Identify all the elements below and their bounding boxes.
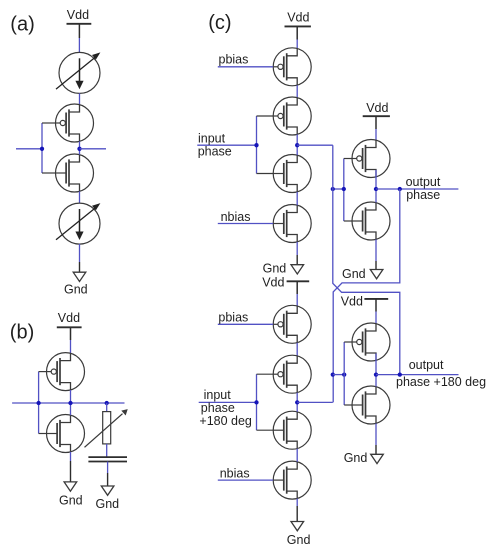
svg-text:Gnd: Gnd [263, 262, 287, 276]
wire Vdd to M3 [70, 340, 72, 353]
wire M16 to ground [375, 423, 377, 445]
input label top [198, 131, 226, 145]
wire input phase 180 line [199, 401, 257, 403]
junction tap left bottom [331, 372, 335, 376]
wire M8 to ground [296, 242, 298, 255]
Vdd label (a) [67, 8, 89, 22]
transistor M1 (PMOS) [56, 104, 94, 142]
Vdd label (c mid) [262, 276, 284, 290]
svg-text:phase: phase [201, 401, 235, 415]
ground symbol (a) [73, 272, 86, 281]
pbias label bottom [218, 310, 248, 324]
ground symbol (b) right [101, 486, 114, 495]
wire M7 to M8 [296, 192, 298, 205]
Gnd label (b) right [96, 497, 120, 511]
wire resistor to capacitor [106, 444, 108, 457]
svg-text:output: output [409, 358, 444, 372]
transistor M13 (PMOS out top) [352, 140, 390, 178]
ground symbol (b) left [64, 482, 77, 491]
wire I1 to M1 drain [79, 93, 81, 105]
wire Vdd to M5 stem [296, 26, 298, 39]
svg-text:+180 deg: +180 deg [199, 414, 252, 428]
ground symbol (c bottom-left) [291, 522, 304, 531]
junction input gate bottom [254, 400, 258, 404]
Vdd rail bar (c mid) [287, 280, 310, 282]
wire pbias bottom [218, 323, 273, 325]
wire gate bus top input [256, 116, 258, 174]
wire Vdd to M13 [375, 129, 377, 140]
Vdd rail bar (c top-left) [285, 25, 311, 27]
output label bottom [409, 358, 444, 372]
transistor M7 (NMOS input top) [273, 155, 311, 193]
svg-text:Vdd: Vdd [67, 8, 89, 22]
Gnd label (c bottom-left) [287, 533, 311, 547]
svg-text:Vdd: Vdd [58, 311, 80, 325]
Vdd rail bar (a) [67, 23, 92, 25]
wire M11 to M12 [296, 449, 298, 462]
wire M4 to ground (b) [70, 452, 72, 461]
svg-text:(c): (c) [208, 12, 231, 34]
wire ground stem (a) [79, 262, 81, 272]
wire gate bus out top [343, 159, 345, 222]
wire Vdd to I1 stem [78, 24, 80, 38]
wire gate stub M14 [344, 220, 353, 222]
svg-text:Gnd: Gnd [342, 267, 366, 281]
transistor M15 (PMOS out bottom) [352, 323, 390, 361]
wire gate bus bottom input [256, 374, 258, 430]
wire Vdd to M15 stem [375, 299, 377, 312]
transistor M4 (NMOS) [47, 415, 85, 453]
junction gate bus (b) [36, 401, 40, 405]
transistor M9 (PMOS pbias bottom) [273, 305, 311, 343]
wire Vdd to M3 stem [70, 327, 72, 340]
capacitor C1 [88, 457, 127, 461]
plus 180 deg label [199, 414, 252, 428]
svg-text:Vdd: Vdd [366, 101, 388, 115]
Vdd label (b) [58, 311, 80, 325]
resistor R1 (variable) [85, 409, 128, 447]
wire M9 to M10 [296, 343, 298, 356]
wire cross tap top [333, 188, 344, 190]
junction output cross top [398, 187, 402, 191]
wire gate stub M7 [257, 173, 274, 175]
svg-text:Gnd: Gnd [64, 283, 88, 297]
ground symbol (c top-left) [291, 265, 304, 274]
phase label bottom [201, 401, 235, 415]
wire M2 to I2 [79, 191, 81, 203]
wire ground stem (c bottom-right) [375, 445, 377, 454]
Gnd label (a) [64, 283, 88, 297]
Vdd rail bar (c top-right) [363, 115, 390, 117]
wire node B to cross rail [297, 401, 333, 403]
wire gate stub M16 [344, 404, 352, 406]
wire output phase line [376, 188, 458, 190]
section label (c) [208, 12, 231, 34]
wire mid rail (b) [70, 390, 72, 415]
junction node B [295, 400, 299, 404]
transistor M14 (NMOS out top) [352, 202, 390, 240]
wire Vdd to M13 stem [375, 116, 377, 129]
svg-text:phase: phase [406, 188, 440, 202]
junction node A [295, 143, 299, 147]
svg-text:(a): (a) [10, 13, 34, 35]
junction input gate (a) [40, 147, 44, 151]
svg-text:Gnd: Gnd [59, 494, 83, 508]
wire pbias top [218, 66, 273, 68]
wire Vdd to M15 [375, 312, 377, 324]
Gnd label (c bottom-right) [344, 451, 368, 465]
wire node A to cross rail [297, 144, 333, 146]
wire net B cross (output A to node B) [333, 189, 400, 402]
wire net A cross (node A to output B) [333, 145, 400, 374]
junction out node bottom [374, 372, 378, 376]
wire Vdd to M5 [296, 40, 298, 49]
transistor M3 (PMOS) [47, 353, 85, 391]
wire cross tap bottom [333, 374, 344, 376]
transistor M11 (NMOS input bottom) [273, 411, 311, 449]
transistor M2 (NMOS) [56, 154, 94, 192]
junction output cross bottom [398, 372, 402, 376]
svg-text:nbias: nbias [220, 467, 250, 481]
svg-text:Gnd: Gnd [96, 497, 120, 511]
ground symbol (c top-right) [370, 270, 383, 279]
wire gate stub M10 [257, 373, 274, 375]
phase label top [198, 144, 232, 158]
wire gate stub M15 [344, 341, 352, 343]
wire tap to resistor [106, 403, 108, 412]
wire gate bus out bottom [343, 342, 345, 405]
phase 180 label [396, 375, 486, 389]
svg-text:output: output [406, 175, 441, 189]
wire ground stem (b) left [70, 461, 72, 482]
Vdd label (c top-right) [366, 101, 388, 115]
wire ground stem (c top-left) [296, 255, 298, 265]
junction tap left top [331, 187, 335, 191]
wire gate stub M1 [42, 122, 56, 124]
input label bottom [204, 388, 232, 402]
svg-text:Vdd: Vdd [341, 295, 363, 309]
wire gate bus (b) [38, 372, 40, 434]
junction input gate top [254, 143, 258, 147]
Vdd label (c bottom-right) [341, 295, 363, 309]
nbias label bottom [220, 467, 250, 481]
wire M14 to ground [375, 239, 377, 261]
wire ground stem (b) right [107, 473, 109, 486]
transistor M8 (NMOS nbias top) [273, 205, 311, 243]
junction output node (b) [68, 401, 72, 405]
junction output node (a) [77, 147, 81, 151]
transistor M16 (NMOS out bottom) [352, 386, 390, 424]
wire gate stub M6 [257, 115, 274, 117]
svg-text:Vdd: Vdd [287, 11, 309, 25]
Vdd label (c top-left) [287, 11, 309, 25]
wire M12 to ground [296, 499, 298, 507]
wire inverter node bottom [296, 393, 298, 412]
wire gate stub M13 [344, 158, 353, 160]
wire gate bus (a) [41, 123, 43, 173]
wire nbias bottom [218, 479, 273, 481]
Vdd rail bar (b) [57, 326, 82, 328]
Gnd label (c top-right) [342, 267, 366, 281]
svg-text:Vdd: Vdd [262, 276, 284, 290]
wire ground stem (c bottom-left) [296, 506, 298, 521]
section label (a) [10, 13, 34, 35]
wire M5 to M6 [296, 85, 298, 98]
wire nbias top [218, 223, 273, 225]
svg-text:nbias: nbias [221, 210, 251, 224]
Vdd rail bar (c bottom-right) [364, 298, 388, 300]
wire Vdd to M9 [296, 294, 298, 306]
transistor M12 (NMOS nbias bottom) [273, 461, 311, 499]
junction resistor tap (b) [105, 401, 109, 405]
wire inverter node out bottom [375, 353, 377, 386]
wire output node (a) [79, 141, 81, 154]
transistor M10 (PMOS input bottom) [273, 355, 311, 393]
svg-text:pbias: pbias [219, 53, 249, 67]
wire capacitor to ground [107, 462, 109, 474]
junction out node top [374, 187, 378, 191]
svg-text:Gnd: Gnd [344, 451, 368, 465]
current source I1 (variable) [56, 52, 100, 93]
wire inverter node out top [375, 170, 377, 203]
section label (b) [10, 321, 34, 343]
wire output line (b) [12, 402, 124, 404]
svg-text:(b): (b) [10, 321, 34, 343]
wire output stub (a) [80, 148, 107, 150]
wire gate stub M4 [39, 433, 47, 435]
Gnd label (b) left [59, 494, 83, 508]
wire gate stub M3 [39, 371, 47, 373]
wire gate stub M2 [42, 172, 56, 174]
transistor M6 (PMOS input top) [273, 97, 311, 135]
current source I2 (variable) [56, 203, 100, 244]
transistor M5 (PMOS pbias top) [273, 48, 311, 86]
svg-text:input: input [198, 131, 226, 145]
svg-text:Gnd: Gnd [287, 533, 311, 547]
wire inverter node top [296, 134, 298, 155]
phase label out top [406, 188, 440, 202]
wire input phase line [197, 144, 256, 146]
wire gate stub M11 [257, 429, 274, 431]
nbias label top [221, 210, 251, 224]
svg-text:phase +180 deg: phase +180 deg [396, 375, 486, 389]
svg-text:phase: phase [198, 144, 232, 158]
wire input stub (a) [16, 148, 42, 150]
junction tap bus bottom [342, 372, 346, 376]
junction tap bus top [342, 187, 346, 191]
ground symbol (c bottom-right) [371, 454, 384, 463]
wire output phase 180 line [376, 374, 459, 376]
svg-text:pbias: pbias [218, 310, 248, 324]
pbias label top [219, 53, 249, 67]
Gnd label (c top-left) [263, 262, 287, 276]
wire ground stem (c top-right) [375, 261, 377, 269]
wire Vdd to I1 [78, 38, 80, 53]
wire Vdd to M9 stem [296, 281, 298, 294]
svg-text:input: input [204, 388, 232, 402]
output label top [406, 175, 441, 189]
wire I2 to ground (a) [79, 244, 81, 262]
